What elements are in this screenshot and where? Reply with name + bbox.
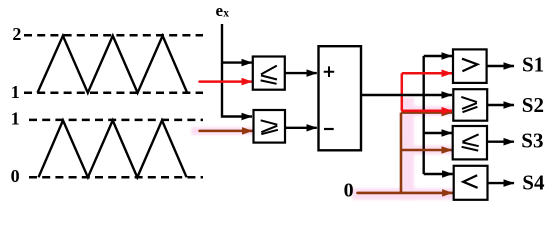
svg-text:x: x: [223, 7, 229, 19]
highlight band along branch to comparator U5 lower input: [401, 146, 452, 155]
comparator U3 symbol (greater-than): [462, 59, 477, 71]
comparator U1 symbol (less-than-or-equal slanted): [261, 66, 277, 84]
svg-text:S4: S4: [522, 170, 545, 194]
wire branch to comparator U3 upper input: [424, 55, 452, 57]
svg-text:1: 1: [11, 82, 20, 102]
lower carrier triangle waveform: [39, 120, 187, 177]
highlight band along branch to comparator U4 lower input: [401, 106, 452, 116]
comparator U5 symbol (less-than-or-equal slanted): [462, 134, 479, 150]
comparator U2 symbol (greater-than-or-equal slanted): [261, 120, 278, 134]
svg-text:S3: S3: [521, 128, 543, 152]
dashed level line y=1 upper: [24, 92, 203, 95]
wire ex vertical with elbow into comparator U2 upper input: [222, 24, 252, 117]
dashed level line y=0: [24, 176, 203, 179]
wire branch to comparator U6 upper input: [424, 173, 453, 175]
wire comparator U1 output to summer plus input: [285, 72, 317, 74]
summer block: [319, 46, 362, 150]
summer plus sign: [324, 66, 335, 77]
wire branch ex to comparator U1 upper input: [222, 61, 252, 63]
wire comparator U5 output to S3: [487, 140, 514, 142]
wire upper carrier (red) to comparator U1 lower input: [200, 80, 253, 83]
wire red branch to comparator U4 lower input: [402, 109, 452, 112]
wire comparator U2 output to summer minus input: [285, 127, 317, 129]
summer minus sign: [324, 128, 334, 130]
comparator U2 box: [254, 110, 286, 143]
dashed level line y=2: [24, 34, 203, 37]
svg-text:0: 0: [11, 166, 20, 186]
wire zero net vertical riser: [400, 113, 403, 193]
wire zero net branch to comparator U5 lower input: [401, 149, 452, 152]
svg-text:1: 1: [11, 109, 20, 129]
wire branch to comparator U5 upper input: [424, 132, 452, 134]
comparator U4 symbol (greater-than-or-equal slanted): [461, 97, 477, 112]
svg-text:S2: S2: [522, 93, 544, 117]
comparator U6 box: [454, 166, 488, 200]
upper carrier triangle waveform: [38, 36, 188, 93]
highlight band along brown wire to comparator U2: [192, 127, 255, 135]
dashed level line y=1 lower: [24, 119, 203, 122]
wire main distribution vertical: [423, 56, 425, 174]
node label ex: [216, 1, 230, 20]
wire red branch to comparator U3 lower input: [402, 72, 452, 75]
comparator U4 box: [453, 89, 487, 121]
wire comparator U3 output to S1: [487, 65, 514, 67]
svg-text:2: 2: [12, 24, 21, 44]
comparator U3 box: [453, 49, 487, 83]
wire red bracket vertical: [401, 73, 404, 110]
wire comparator U4 output to S2: [487, 104, 514, 106]
comparator U6 symbol (less-than): [463, 175, 477, 188]
highlight band along zero net bottom wire: [352, 188, 454, 200]
svg-text:S1: S1: [522, 53, 544, 77]
wire comparator U6 output to S4: [488, 182, 515, 184]
wire summer output main line to comparator U4 upper input: [361, 94, 452, 96]
comparator U5 box: [453, 126, 487, 159]
wire lower carrier (brown) to comparator U2 lower input: [200, 130, 253, 133]
svg-text:0: 0: [344, 180, 354, 202]
highlight band along vertical zero/red net: [402, 98, 414, 200]
comparator U1 box: [253, 57, 285, 90]
wire zero net branch to comparator U4 lower input: [401, 111, 452, 114]
wire zero net bottom to comparator U6 lower input: [358, 192, 453, 195]
